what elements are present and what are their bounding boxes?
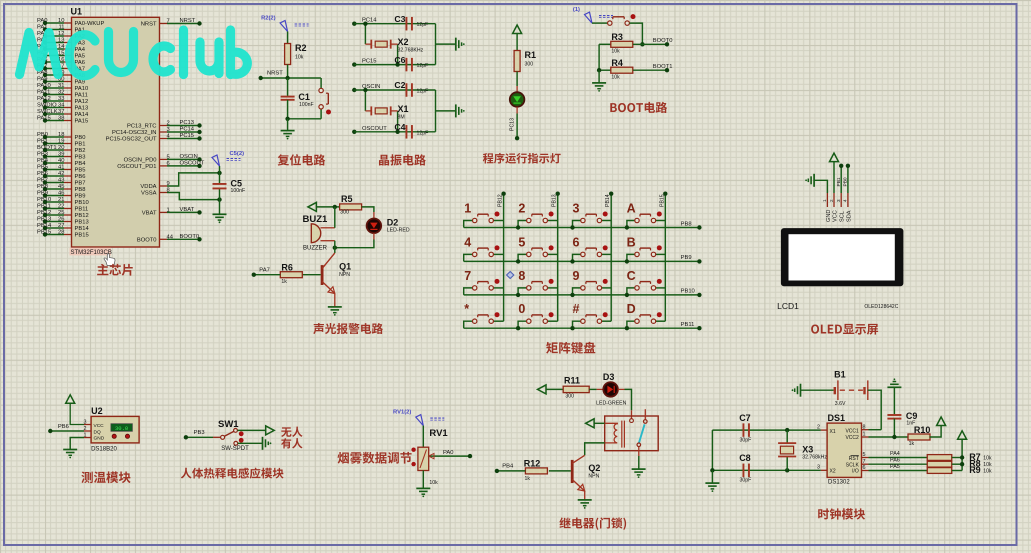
svg-text:PC14: PC14 <box>180 127 195 133</box>
svg-text:8: 8 <box>518 269 525 283</box>
svg-text:5: 5 <box>518 235 525 249</box>
svg-text:PB7: PB7 <box>37 177 48 183</box>
svg-text:VBAT: VBAT <box>180 207 195 213</box>
svg-text:C6: C6 <box>394 55 405 65</box>
svg-text:100nF: 100nF <box>299 102 314 108</box>
svg-text:Q2: Q2 <box>588 463 600 473</box>
svg-text:X3: X3 <box>802 445 813 455</box>
svg-text:32: 32 <box>58 90 64 96</box>
svg-text:BUZZER: BUZZER <box>303 246 328 252</box>
svg-text:PB6: PB6 <box>75 174 86 180</box>
svg-text:3: 3 <box>836 199 841 202</box>
svg-text:I/O: I/O <box>852 469 859 475</box>
svg-text:21: 21 <box>58 197 64 203</box>
svg-text:10k: 10k <box>295 55 304 61</box>
svg-text:4: 4 <box>843 199 848 202</box>
svg-text:10: 10 <box>58 18 64 24</box>
svg-text:PB8: PB8 <box>37 184 48 190</box>
svg-text:NPN: NPN <box>588 474 599 480</box>
svg-text:10k: 10k <box>983 469 992 475</box>
svg-text:PB6: PB6 <box>37 171 48 177</box>
svg-text:13: 13 <box>58 38 64 44</box>
svg-text:8M: 8M <box>398 114 405 120</box>
svg-text:18: 18 <box>58 132 64 138</box>
svg-text:PA12: PA12 <box>75 99 89 105</box>
svg-text:PB11: PB11 <box>681 322 695 328</box>
svg-text:PB0: PB0 <box>843 177 849 186</box>
svg-text:SW-SPDT: SW-SPDT <box>221 446 249 452</box>
svg-text:Q1: Q1 <box>339 262 351 272</box>
svg-text:OSCIN_PD0: OSCIN_PD0 <box>124 157 157 163</box>
svg-text:VSSA: VSSA <box>141 191 157 197</box>
svg-text:NRST: NRST <box>180 18 196 24</box>
svg-text:32.768KHz: 32.768KHz <box>398 48 424 54</box>
svg-text:C: C <box>627 269 636 283</box>
svg-text:19: 19 <box>58 139 64 145</box>
svg-text:VCC2: VCC2 <box>845 435 859 441</box>
svg-text:X1: X1 <box>398 104 409 114</box>
svg-text:PB8: PB8 <box>75 187 86 193</box>
svg-text:1k: 1k <box>525 476 531 482</box>
svg-text:1k: 1k <box>909 441 915 447</box>
svg-text:0: 0 <box>518 302 525 316</box>
svg-text:1k: 1k <box>281 279 287 285</box>
svg-text:30pF: 30pF <box>740 478 752 484</box>
svg-text:BOOT0: BOOT0 <box>180 234 200 240</box>
svg-text:RV1(2): RV1(2) <box>393 410 411 416</box>
svg-text:PB9: PB9 <box>681 255 692 261</box>
svg-text:2: 2 <box>518 202 525 216</box>
svg-text:VCC: VCC <box>94 423 105 429</box>
svg-text:BUZ1: BUZ1 <box>303 214 329 225</box>
svg-text:C3: C3 <box>394 14 405 24</box>
svg-text:1: 1 <box>464 202 471 216</box>
svg-text:R2(2): R2(2) <box>261 16 276 22</box>
svg-text:DS1: DS1 <box>828 413 846 423</box>
svg-text:LCD1: LCD1 <box>777 301 799 311</box>
svg-text:PA0: PA0 <box>443 450 454 456</box>
svg-text:VCC: VCC <box>832 210 838 222</box>
svg-text:PA6: PA6 <box>890 458 900 464</box>
svg-text:PC15: PC15 <box>362 59 377 65</box>
svg-text:10k: 10k <box>429 480 438 486</box>
svg-text:#: # <box>573 302 580 316</box>
svg-text:25: 25 <box>58 210 64 216</box>
svg-text:33: 33 <box>58 96 64 102</box>
svg-text:DS18B20: DS18B20 <box>91 447 117 453</box>
svg-text:9: 9 <box>573 269 580 283</box>
svg-text:BOOT1: BOOT1 <box>653 64 673 70</box>
svg-text:PB2: PB2 <box>75 148 86 154</box>
svg-text:1: 1 <box>84 432 87 438</box>
svg-text:PB3: PB3 <box>37 151 48 157</box>
svg-text:10k: 10k <box>611 49 620 55</box>
svg-text:PA7: PA7 <box>259 267 270 273</box>
svg-text:300: 300 <box>565 394 574 400</box>
svg-text:PC13_RTC: PC13_RTC <box>127 124 157 130</box>
svg-text:PB1: PB1 <box>75 142 86 148</box>
svg-text:PB0: PB0 <box>37 132 48 138</box>
svg-text:PB7: PB7 <box>75 181 86 187</box>
svg-text:STM32F103CB: STM32F103CB <box>71 250 112 256</box>
svg-text:DQ: DQ <box>94 429 101 435</box>
svg-text:BOOT0: BOOT0 <box>653 38 673 44</box>
svg-text:C1: C1 <box>298 92 310 102</box>
svg-text:PB4: PB4 <box>75 161 87 167</box>
svg-text:PC15: PC15 <box>180 133 195 139</box>
svg-text:PB0: PB0 <box>75 135 86 141</box>
svg-text:C5: C5 <box>231 179 243 189</box>
svg-text:10k: 10k <box>983 462 992 468</box>
svg-text:14: 14 <box>58 44 65 50</box>
svg-text:42: 42 <box>58 171 64 177</box>
svg-text:OSCOUT: OSCOUT <box>362 126 387 132</box>
svg-text:7: 7 <box>464 269 471 283</box>
svg-text:PB1: PB1 <box>37 138 48 144</box>
svg-text:4: 4 <box>464 235 471 249</box>
svg-text:PB4: PB4 <box>37 158 49 164</box>
svg-text:100nF: 100nF <box>231 188 246 194</box>
svg-text:PB11: PB11 <box>75 207 89 213</box>
svg-text:PA0: PA0 <box>37 18 48 24</box>
svg-text:32.768kHz: 32.768kHz <box>802 455 827 461</box>
svg-text:PB8: PB8 <box>681 221 692 227</box>
svg-text:PA5: PA5 <box>75 54 86 60</box>
svg-text:PB4: PB4 <box>502 464 514 470</box>
svg-text:PB15: PB15 <box>659 194 665 207</box>
svg-text:PB12: PB12 <box>75 213 89 219</box>
svg-text:*: * <box>464 302 469 316</box>
svg-text:PA11: PA11 <box>75 93 88 99</box>
svg-text:PB5: PB5 <box>75 168 86 174</box>
svg-text:LED-GREEN: LED-GREEN <box>596 401 627 407</box>
svg-text:LED-RED: LED-RED <box>387 228 410 234</box>
svg-text:PA10: PA10 <box>37 83 51 89</box>
svg-text:PB12: PB12 <box>498 194 504 207</box>
svg-text:PB10: PB10 <box>75 200 89 206</box>
svg-text:40: 40 <box>58 158 64 164</box>
svg-text:R1: R1 <box>525 50 537 60</box>
svg-text:PC15-OSC32_OUT: PC15-OSC32_OUT <box>106 137 157 143</box>
svg-text:3.6V: 3.6V <box>835 401 846 407</box>
svg-text:OSCOUT: OSCOUT <box>180 160 205 166</box>
svg-text:D: D <box>627 302 636 316</box>
svg-text:10k: 10k <box>611 75 620 81</box>
svg-text:VBAT: VBAT <box>142 210 157 216</box>
svg-text:PB10: PB10 <box>681 289 695 295</box>
svg-text:R12: R12 <box>524 458 541 468</box>
svg-text:R3: R3 <box>611 32 623 42</box>
svg-text:7: 7 <box>863 459 866 465</box>
svg-text:C4: C4 <box>394 122 405 132</box>
svg-text:SWDIO: SWDIO <box>37 102 57 108</box>
svg-text:BOOT1: BOOT1 <box>37 145 57 151</box>
svg-text:PB9: PB9 <box>75 194 86 200</box>
svg-text:2: 2 <box>84 426 87 432</box>
svg-text:C2: C2 <box>394 80 405 90</box>
svg-text:41: 41 <box>58 165 64 171</box>
svg-text:12pF: 12pF <box>417 89 429 95</box>
svg-text:PA14: PA14 <box>75 112 90 118</box>
svg-text:SCL: SCL <box>840 211 846 222</box>
svg-text:PA0-WKUP: PA0-WKUP <box>75 21 105 27</box>
svg-text:PA9: PA9 <box>75 80 86 86</box>
svg-text:45: 45 <box>58 184 64 190</box>
svg-text:C9: C9 <box>906 411 918 421</box>
svg-text:12pF: 12pF <box>417 63 429 69</box>
svg-text:R9: R9 <box>969 465 981 475</box>
svg-text:PB1: PB1 <box>836 177 842 186</box>
svg-text:6: 6 <box>863 465 866 471</box>
svg-text:11: 11 <box>58 25 64 31</box>
svg-text:37: 37 <box>58 109 64 115</box>
svg-text:R4: R4 <box>611 58 623 68</box>
svg-text:PB14: PB14 <box>605 194 611 207</box>
svg-text:PA13: PA13 <box>75 106 89 112</box>
svg-text:B1: B1 <box>834 370 846 380</box>
svg-text:D3: D3 <box>603 372 615 382</box>
svg-text:PA11: PA11 <box>37 89 50 95</box>
svg-text:43: 43 <box>58 178 64 184</box>
svg-text:DS1302: DS1302 <box>828 480 850 486</box>
svg-text:38: 38 <box>58 116 64 122</box>
svg-text:PB9: PB9 <box>37 190 48 196</box>
svg-text:B: B <box>627 235 636 249</box>
svg-text:X2: X2 <box>830 469 836 475</box>
svg-text:PA10: PA10 <box>75 86 89 92</box>
svg-text:NPN: NPN <box>339 272 350 278</box>
svg-text:GND: GND <box>94 436 105 442</box>
svg-text:PB14: PB14 <box>37 223 52 229</box>
svg-text:12: 12 <box>58 31 64 37</box>
svg-text:(1): (1) <box>573 7 580 13</box>
svg-text:10k: 10k <box>983 456 992 462</box>
svg-text:PC13: PC13 <box>180 120 195 126</box>
svg-text:30.0: 30.0 <box>115 425 128 432</box>
svg-text:X2: X2 <box>398 37 409 47</box>
svg-text:R11: R11 <box>564 376 580 386</box>
svg-text:C7: C7 <box>739 413 751 423</box>
svg-text:VCC1: VCC1 <box>845 428 859 434</box>
svg-text:PB15: PB15 <box>75 233 89 239</box>
svg-text:PB13: PB13 <box>552 194 558 207</box>
svg-text:RV1: RV1 <box>429 428 448 439</box>
svg-text:PA5: PA5 <box>890 464 900 470</box>
svg-text:300: 300 <box>340 210 349 216</box>
svg-text:15: 15 <box>58 51 64 57</box>
svg-text:PA15: PA15 <box>37 115 51 121</box>
svg-text:300: 300 <box>525 62 534 68</box>
svg-text:PA15: PA15 <box>75 119 89 125</box>
svg-text:2: 2 <box>829 199 834 202</box>
svg-text:RST: RST <box>849 456 859 462</box>
svg-text:C8: C8 <box>739 453 751 463</box>
svg-text:OLED128642C: OLED128642C <box>864 304 898 310</box>
svg-text:31: 31 <box>58 83 64 89</box>
svg-text:PB6: PB6 <box>58 424 69 430</box>
svg-text:3: 3 <box>84 420 87 426</box>
svg-text:PB15: PB15 <box>37 229 51 235</box>
svg-text:SWCLK: SWCLK <box>37 109 58 115</box>
svg-text:PA12: PA12 <box>37 96 51 102</box>
svg-text:U2: U2 <box>91 406 103 416</box>
svg-text:34: 34 <box>58 103 65 109</box>
svg-text:BOOT0: BOOT0 <box>137 237 157 243</box>
svg-text:30pF: 30pF <box>740 438 752 444</box>
svg-text:SDA: SDA <box>846 210 852 222</box>
svg-text:VDDA: VDDA <box>140 184 156 190</box>
svg-text:PB14: PB14 <box>75 226 90 232</box>
svg-text:NRST: NRST <box>267 71 283 77</box>
svg-text:PB13: PB13 <box>75 220 89 226</box>
svg-text:R5: R5 <box>341 194 353 204</box>
svg-text:27: 27 <box>58 223 64 229</box>
svg-text:5: 5 <box>863 452 866 458</box>
svg-text:PB13: PB13 <box>37 216 51 222</box>
svg-text:PB12: PB12 <box>37 210 51 216</box>
svg-text:26: 26 <box>58 217 64 223</box>
svg-text:R6: R6 <box>281 262 293 272</box>
svg-text:46: 46 <box>58 191 64 197</box>
svg-text:3: 3 <box>573 202 580 216</box>
svg-text:PB5: PB5 <box>37 164 48 170</box>
svg-text:GND: GND <box>826 210 832 222</box>
svg-text:22: 22 <box>58 204 64 210</box>
svg-text:PA4: PA4 <box>75 47 86 53</box>
svg-text:PB3: PB3 <box>194 430 205 436</box>
svg-text:1: 1 <box>863 432 866 438</box>
svg-text:PB10: PB10 <box>37 197 51 203</box>
svg-text:SCLK: SCLK <box>846 462 860 468</box>
svg-text:PA9: PA9 <box>37 76 48 82</box>
svg-text:20: 20 <box>58 145 64 151</box>
svg-text:6: 6 <box>573 235 580 249</box>
svg-text:8: 8 <box>863 424 866 430</box>
svg-text:PA4: PA4 <box>890 451 900 457</box>
svg-text:39: 39 <box>58 152 64 158</box>
svg-text:28: 28 <box>58 230 64 236</box>
svg-text:C5(2): C5(2) <box>230 151 245 157</box>
svg-text:OSCOUT_PD1: OSCOUT_PD1 <box>117 164 156 170</box>
svg-text:R10: R10 <box>914 425 931 435</box>
svg-text:NRST: NRST <box>141 22 157 28</box>
svg-text:PC14-OSC32_IN: PC14-OSC32_IN <box>112 130 156 136</box>
svg-text:D2: D2 <box>387 217 399 227</box>
svg-text:12pF: 12pF <box>417 130 429 136</box>
svg-text:U1: U1 <box>71 7 83 17</box>
svg-text:X1: X1 <box>830 429 836 435</box>
svg-text:PC13: PC13 <box>510 118 516 131</box>
svg-text:1: 1 <box>822 199 827 202</box>
svg-text:PB11: PB11 <box>37 203 51 209</box>
svg-text:12pF: 12pF <box>417 22 429 28</box>
svg-text:R2: R2 <box>295 43 307 53</box>
svg-text:PB3: PB3 <box>75 155 86 161</box>
svg-text:OSCIN: OSCIN <box>180 154 198 160</box>
svg-text:A: A <box>627 202 636 216</box>
